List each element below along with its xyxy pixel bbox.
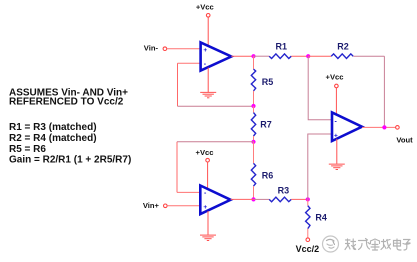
resistor R1: [269, 41, 291, 58]
power terminal +Vcc (U2): [196, 148, 214, 162]
wire U1 feedback loop left vertical: [177, 63, 179, 106]
notes text block: [9, 87, 131, 165]
power terminal +Vcc (U1): [196, 2, 214, 17]
wire U1 feedback loop bottom horizontal: [178, 105, 254, 107]
wire U3 inverting input vertical: [308, 56, 331, 120]
resistor R7: [251, 113, 272, 136]
svg-text:R1 = R3 (matched): R1 = R3 (matched): [9, 122, 97, 133]
ground (U1): [200, 92, 216, 97]
wire Vin+ to U2 + input: [167, 205, 199, 207]
input terminal Vin-: [144, 44, 167, 53]
wire U2 feedback left vertical: [176, 142, 178, 193]
op-amp U2: [200, 186, 230, 215]
wire U2 feedback top horizontal: [177, 141, 254, 143]
svg-text:REFERENCED TO Vcc/2: REFERENCED TO Vcc/2: [9, 97, 124, 108]
node A (U1 output / R5 / R1): [251, 54, 255, 58]
svg-text:R5 = R6: R5 = R6: [9, 144, 46, 155]
wire feedback vertical to U3 output: [383, 56, 385, 127]
watermark text 张飞实战电子: [345, 239, 410, 251]
wire U1 output: [231, 55, 253, 57]
op-amp U3: [332, 112, 362, 141]
svg-text:R7: R7: [260, 119, 272, 129]
wire +Vcc to U1 power pin: [207, 17, 209, 45]
svg-text:R2: R2: [337, 41, 349, 51]
node B (R5/R7/U1 feedback): [251, 104, 255, 108]
ground (U3): [329, 164, 345, 169]
watermark logo circle: [323, 236, 339, 252]
wire node to R2: [308, 55, 331, 57]
input terminal Vin+: [143, 201, 167, 210]
output terminal Vout: [396, 126, 414, 145]
wire R7 to node C: [253, 136, 255, 142]
node (R1/R2/U3 inverting): [306, 54, 310, 58]
svg-text:+: +: [334, 132, 338, 139]
op-amp U1: [201, 42, 232, 70]
power terminal Vcc/2: [296, 238, 320, 254]
svg-text:R1: R1: [276, 41, 288, 51]
resistor R5: [251, 69, 273, 91]
wire U2 ground stem: [207, 211, 209, 235]
svg-text:Gain = R2/R1 (1 + 2R5/R7): Gain = R2/R1 (1 + 2R5/R7): [9, 155, 131, 166]
resistor R3: [269, 185, 291, 201]
wire R1 to node (R1/R2/U3-): [291, 55, 308, 57]
resistor R2: [331, 41, 353, 58]
resistor R6: [251, 163, 273, 186]
svg-text:Vout: Vout: [396, 135, 413, 144]
wire R4 to Vcc/2 terminal: [307, 229, 309, 238]
wire U1 inverting input stub: [178, 62, 201, 64]
svg-text:+Vcc: +Vcc: [196, 148, 214, 157]
svg-text:R6: R6: [262, 170, 274, 180]
wire Vin- to U1 + input: [167, 48, 200, 50]
wire U2 inverting input stub: [177, 191, 200, 193]
wire node C to R6: [253, 142, 255, 164]
wire node A to R1: [254, 55, 270, 57]
wire +Vcc to U3 power pin: [335, 88, 337, 115]
wire node E to R4: [307, 199, 309, 205]
resistor R4: [306, 206, 327, 229]
wire +Vcc to U2 power pin: [207, 162, 209, 189]
wire R5 to node B: [253, 91, 255, 106]
node D (U2 output/R6/R3): [251, 197, 255, 201]
wire U3 ground stem: [336, 139, 338, 164]
power terminal +Vcc (U3): [326, 72, 344, 87]
node F (U3 output / R2 feedback / Vout): [382, 125, 386, 129]
ground (U2): [200, 235, 216, 240]
svg-text:Vcc/2: Vcc/2: [296, 244, 320, 254]
svg-text:R3: R3: [278, 185, 290, 195]
wire R3 to node E: [291, 198, 308, 200]
svg-text:+: +: [203, 204, 207, 211]
svg-text:R4: R4: [315, 213, 327, 223]
svg-text:+Vcc: +Vcc: [196, 2, 214, 11]
svg-text:R2 = R4 (matched): R2 = R4 (matched): [9, 133, 97, 144]
svg-text:Vin-: Vin-: [144, 44, 159, 53]
wire R6 to node D: [253, 186, 255, 199]
wire U3 output: [362, 126, 396, 128]
svg-text:+: +: [203, 47, 207, 54]
svg-text:+Vcc: +Vcc: [326, 72, 344, 81]
wire U1 ground stem: [207, 68, 209, 93]
wire U3 non-inverting input vertical: [308, 134, 332, 199]
wire node A down to R5: [253, 56, 255, 69]
wire U2 output: [231, 198, 254, 200]
wire R2 to right corner: [353, 55, 384, 57]
node E (R3/R4/U3 + input): [306, 197, 310, 201]
node C (R7/R6/U2 feedback): [251, 140, 255, 144]
svg-text:Vin+: Vin+: [143, 201, 160, 210]
wire node B to R7: [253, 106, 255, 113]
wire node D to R3: [254, 198, 270, 200]
svg-text:R5: R5: [262, 77, 274, 87]
